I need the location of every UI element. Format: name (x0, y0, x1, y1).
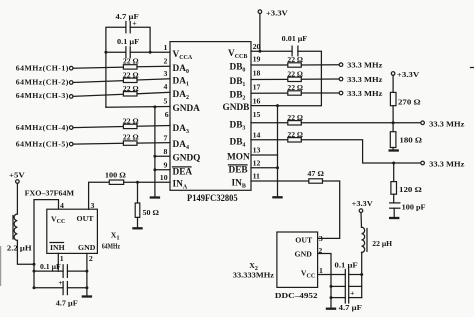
node junction middle row/gnd rail (330, 285, 333, 288)
svg-text:0.1 μF: 0.1 μF (335, 261, 358, 270)
wire +3.3V to 270 Ohm (392, 75, 394, 92)
scan artifact gutter shadow left edge (0, 246, 2, 286)
svg-text:OUT: OUT (295, 236, 313, 245)
wire GNDB rail down (277, 106, 279, 197)
svg-text:DEA: DEA (173, 167, 193, 177)
svg-text:4: 4 (60, 201, 64, 210)
wire +3.3V to 22uH (360, 213, 363, 228)
IC pin name DEB with overline (229, 165, 248, 175)
wire pin17 to R10 (251, 92, 288, 94)
svg-text:+3.3V: +3.3V (352, 199, 373, 208)
svg-text:180 Ω: 180 Ω (399, 136, 422, 145)
svg-text:0.01 μF: 0.01 μF (282, 34, 308, 43)
svg-text:12: 12 (253, 159, 261, 168)
svg-text:22 Ω: 22 Ω (287, 130, 303, 139)
svg-text:4: 4 (164, 82, 168, 91)
svg-text:22 Ω: 22 Ω (123, 116, 139, 125)
resistor R8 22 Ohm (DB0) (287, 55, 303, 67)
wire 120 Ohm to C6 (393, 194, 395, 202)
wire 4.7uF top branch (106, 27, 126, 52)
svg-text:13: 13 (253, 146, 261, 155)
svg-text:100 pF: 100 pF (402, 202, 426, 211)
wire CH-2 to R (73, 81, 123, 83)
svg-text:FXO–37F64M: FXO–37F64M (25, 189, 75, 198)
svg-text:47 Ω: 47 Ω (307, 169, 324, 178)
wire C4 left (34, 287, 63, 289)
svg-text:22 μH: 22 μH (372, 239, 392, 248)
terminal 64MHz(CH-1) (16, 64, 73, 73)
wire pin16 GNDB (251, 105, 278, 107)
svg-text:14: 14 (253, 131, 261, 140)
wire 180 Ohm to ground (392, 148, 394, 150)
ground below 50 Ohm (132, 227, 142, 229)
wire X2 VCC pin1 line (318, 274, 346, 276)
designator X1 64MHz (102, 231, 120, 251)
resistor R3 22 Ohm (CH-3) (123, 84, 139, 96)
capacitor C7 0.1uF (X2) (335, 261, 358, 303)
terminal 33.3 MHz (DB1) (339, 75, 383, 84)
terminal 64MHz(CH-4) (16, 123, 73, 132)
wire pin15 to R12 (251, 122, 288, 124)
node junction bottom row/gnd rail (330, 296, 333, 299)
wire pin20 to C5 (251, 50, 292, 52)
svg-text:64MHz(CH-1): 64MHz(CH-1) (16, 64, 69, 73)
svg-text:33.3 MHz: 33.3 MHz (347, 89, 383, 98)
node junction pin12/rail (276, 166, 279, 169)
wire C4 right (67, 287, 87, 289)
node junction divider/DB3 (392, 121, 395, 124)
node junction C4/GND rail (85, 286, 88, 289)
svg-text:2: 2 (89, 254, 93, 263)
resistor R16 47 Ohm (307, 169, 324, 183)
designator X2 33.333MHz (233, 261, 275, 279)
wire CH-4 to R (73, 127, 123, 128)
wire R10 to terminal (301, 92, 339, 94)
node junction VCC/22uH (360, 273, 363, 276)
svg-text:OUT: OUT (77, 214, 95, 223)
scan artifact mark top right (471, 67, 474, 69)
wire C6 to ground (393, 208, 395, 217)
capacitor C3 0.1uF (X1) (40, 262, 67, 277)
svg-text:1: 1 (319, 266, 323, 275)
terminal 33.3 MHz (DB0) (339, 61, 383, 70)
inductor L2 22uH (362, 227, 393, 252)
wire R5 to pin7 (137, 142, 170, 145)
terminal 64MHz(CH-2) (16, 77, 73, 86)
wire C7 right to 22uH feed (349, 274, 362, 276)
wire +3.3V down to pin20 (259, 14, 261, 52)
svg-text:64MHz: 64MHz (102, 241, 120, 250)
wire pin1 VCCA line right (130, 51, 170, 53)
node junction GNDB rail (276, 104, 279, 107)
resistor R10 22 Ohm (DB2) (287, 83, 303, 95)
svg-text:18: 18 (253, 68, 261, 77)
ground GNDA (150, 196, 160, 198)
wire R2 to pin3 (137, 79, 170, 80)
resistor R13 180 Ohm (390, 132, 422, 148)
svg-text:GND: GND (78, 243, 96, 252)
svg-text:P149FC32805: P149FC32805 (187, 194, 238, 204)
capacitor C1 4.7uF (VCCA bulk decoupling) (115, 12, 139, 33)
wire pin19 to R8 (251, 64, 288, 66)
wire R14 jog down and right to terminal (301, 140, 421, 163)
terminal 64MHz(CH-3) (16, 91, 73, 100)
svg-text:11: 11 (253, 172, 260, 181)
wire R3 to pin4 (137, 92, 170, 94)
op-amp U1 main IC body P149FC32805 (170, 42, 251, 204)
resistor R2 22 Ohm (CH-2) (123, 70, 139, 82)
svg-text:+: + (350, 288, 355, 297)
wire R4 to pin6 (137, 125, 170, 128)
wire CH-3 to R (73, 94, 123, 96)
svg-text:22 Ω: 22 Ω (287, 83, 303, 92)
wire R8 to terminal (301, 64, 339, 66)
svg-text:22 Ω: 22 Ω (287, 55, 303, 64)
svg-text:4.7 μF: 4.7 μF (56, 298, 78, 307)
svg-text:16: 16 (253, 96, 261, 105)
svg-text:50 Ω: 50 Ω (143, 208, 160, 217)
wire tap down to 120 Ohm (393, 163, 395, 182)
resistor R1 22 Ohm (CH-1) (123, 57, 139, 70)
node junction pin9/ground rail (153, 168, 156, 171)
wire 47 Ohm down to X2 OUT (318, 181, 340, 238)
wire bottom cap row left (331, 297, 345, 299)
svg-text:+: + (132, 18, 137, 27)
svg-text:7: 7 (164, 133, 168, 142)
wire GNDA vertical rail (154, 107, 156, 196)
capacitor C6 100 pF (390, 202, 426, 211)
svg-text:8: 8 (164, 147, 168, 156)
node junction 50 Ohm tap (136, 181, 139, 184)
node junction 120 Ohm tap (392, 162, 395, 165)
svg-text:100 Ω: 100 Ω (105, 171, 126, 180)
svg-text:10: 10 (160, 173, 168, 182)
resistor R9 22 Ohm (DB1) (287, 69, 303, 81)
wire C3 left (34, 270, 63, 272)
capacitor C5 0.01uF (282, 34, 308, 56)
svg-text:1: 1 (164, 43, 168, 52)
resistor R5 22 Ohm (CH-5) (123, 133, 139, 146)
terminal 33.3 MHz (DB3) (421, 120, 465, 129)
svg-text:GNDQ: GNDQ (173, 154, 201, 164)
svg-text:64MHz(CH-3): 64MHz(CH-3) (16, 91, 69, 100)
wire node to 180 Ohm (392, 123, 394, 132)
resistor R11 270 Ohm (390, 92, 420, 106)
svg-text:120 Ω: 120 Ω (399, 185, 422, 194)
svg-text:GNDA: GNDA (173, 104, 201, 114)
wire X1 VCC rail (34, 200, 59, 288)
wire X1 GND pin2 down (86, 253, 88, 295)
wire pin11 INB to 47 Ohm (251, 180, 309, 182)
wire pin1 VCCA line (106, 51, 126, 53)
wire pin14 to R14 (251, 139, 288, 141)
node junction left rail / pin1 (104, 51, 107, 54)
wire DEA pin9 tie to ground rail (155, 169, 170, 171)
ground X2 (326, 308, 336, 310)
wire R1 to pin2 (137, 65, 170, 68)
terminal 33.3 MHz (DB2) (339, 89, 383, 98)
wire C3 right (67, 270, 87, 272)
node junction VCCA rail / pin1 (149, 51, 152, 54)
wire 22uH feed rail down (361, 252, 363, 297)
svg-text:33.3 MHz: 33.3 MHz (429, 120, 465, 129)
capacitor C4 4.7uF (X1) polarized (56, 278, 78, 307)
svg-text:+5V: +5V (9, 170, 25, 179)
svg-text:GND: GND (295, 249, 313, 258)
svg-text:GNDB: GNDB (223, 103, 250, 113)
wire R6 to pin10 INA (124, 181, 170, 183)
terminal +5V (9, 170, 25, 183)
wire CH-1 to R (73, 67, 123, 68)
node junction L1 to X1 VCC rail (33, 263, 36, 266)
svg-text:19: 19 (253, 55, 261, 64)
capacitor C8 4.7uF (X2) polarized bottom row (339, 288, 362, 312)
wire 50 Ohm to ground (137, 217, 139, 227)
terminal +3.3V (VCCB) (258, 8, 288, 17)
ground 180 Ohm (389, 149, 399, 151)
svg-text:33.333MHz: 33.333MHz (233, 271, 275, 280)
svg-text:3: 3 (164, 69, 168, 78)
svg-text:64MHz(CH-5): 64MHz(CH-5) (16, 139, 69, 148)
ground X1 (82, 295, 92, 297)
svg-text:3: 3 (91, 201, 95, 210)
node junction GNDA rail (153, 105, 156, 108)
svg-text:22 Ω: 22 Ω (123, 70, 139, 79)
wire ground rail left (to GNDA row) (105, 52, 107, 107)
svg-text:0.1 μF: 0.1 μF (117, 37, 139, 46)
wire X1 pin1 INH stub (57, 253, 59, 271)
svg-text:2: 2 (164, 56, 168, 65)
svg-text:5: 5 (164, 97, 168, 106)
wire middle cap row (331, 285, 345, 287)
svg-text:64MHz(CH-2): 64MHz(CH-2) (16, 77, 69, 86)
svg-text:+3.3V: +3.3V (266, 8, 288, 17)
wire pin13 MON to rail (251, 154, 278, 156)
wire middle cap row right (349, 285, 362, 287)
resistor R4 22 Ohm (CH-4) (123, 116, 139, 128)
svg-text:17: 17 (253, 82, 261, 91)
svg-text:DEB: DEB (229, 165, 248, 175)
node junction pin8/ground rail (153, 155, 156, 158)
node junction C3/VCC rail (33, 270, 36, 273)
ground GNDB (272, 196, 282, 198)
svg-text:6: 6 (165, 110, 169, 119)
svg-text:DDC–4952: DDC–4952 (275, 291, 318, 300)
node junction C3/GND rail (85, 270, 88, 273)
svg-text:X1: X1 (111, 231, 120, 242)
svg-text:2.2 μH: 2.2 μH (7, 244, 32, 253)
svg-text:22 Ω: 22 Ω (123, 84, 139, 93)
oscillator X1 FXO-37F64M box (25, 189, 98, 254)
wire X1 OUT up to 100 Ohm line (89, 182, 110, 209)
svg-text:9: 9 (164, 161, 168, 170)
svg-text:22 Ω: 22 Ω (287, 69, 303, 78)
wire bottom cap row right (349, 297, 362, 299)
wire pin12 DEB to rail (251, 167, 278, 169)
inductor L1 2.2uH (7, 214, 32, 253)
wire 4.7uF to VCCA rail (130, 27, 150, 52)
resistor R14 22 Ohm (DB4) (287, 130, 303, 142)
svg-text:270 Ω: 270 Ω (398, 97, 421, 106)
svg-text:+3.3V: +3.3V (397, 70, 420, 79)
wire inductor to VCC rail (17, 240, 34, 264)
svg-text:MON: MON (227, 153, 250, 163)
terminal 64MHz(CH-5) (16, 139, 73, 148)
svg-text:33.3 MHz: 33.3 MHz (347, 61, 383, 70)
svg-text:3: 3 (319, 234, 323, 243)
wire CH-5 to R (73, 142, 123, 145)
svg-text:4.7 μF: 4.7 μF (339, 303, 362, 312)
oscillator X2 DDC-4952 box (275, 232, 318, 300)
resistor R7 50 Ohm (135, 203, 159, 217)
wire tap down to 50 Ohm (137, 182, 139, 203)
wire GNDQ pin8 tie to ground rail (155, 155, 170, 157)
wire X2 GND pin2 to rail (318, 254, 331, 308)
svg-text:22 Ω: 22 Ω (123, 57, 139, 66)
wire 270 Ohm down to node (392, 106, 394, 123)
svg-text:33.3 MHz: 33.3 MHz (429, 160, 465, 169)
svg-text:+: + (58, 278, 63, 287)
IC pin name DEA with overline (173, 167, 193, 177)
terminal 33.3 MHz (DB4) (421, 160, 465, 169)
svg-text:15: 15 (253, 110, 261, 119)
svg-text:64MHz(CH-4): 64MHz(CH-4) (16, 123, 69, 132)
capacitor C2 0.1uF (VCCA decoupling) (117, 37, 139, 58)
wire C5 to GNDB return (278, 51, 322, 105)
svg-text:22 Ω: 22 Ω (287, 113, 303, 122)
resistor R15 120 Ohm (391, 182, 422, 195)
svg-text:INH: INH (50, 243, 65, 252)
wire +5V down to inductor (16, 183, 18, 214)
ground 100 pF (389, 217, 399, 219)
terminal +3.3V (X2 supply) (352, 199, 373, 212)
svg-text:22 Ω: 22 Ω (123, 133, 139, 142)
wire R9 to terminal (301, 78, 339, 80)
svg-text:33.3 MHz: 33.3 MHz (347, 75, 383, 84)
terminal +3.3V (DB3 pull-up) (391, 70, 419, 79)
node junction +3.3V/pin20 (258, 50, 261, 53)
svg-text:0.1 μF: 0.1 μF (40, 262, 61, 271)
wire pin18 to R9 (251, 78, 288, 80)
resistor R6 100 Ohm (105, 171, 126, 185)
resistor R12 22 Ohm (DB3) (287, 113, 303, 125)
wire R12 to terminal (301, 122, 421, 124)
node junction C4/VCC rail (33, 286, 36, 289)
wire GNDA row pin5 (106, 106, 170, 109)
